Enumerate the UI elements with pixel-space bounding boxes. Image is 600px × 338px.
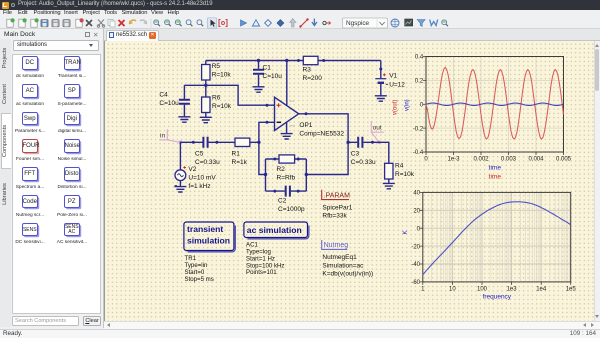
svg-text:0.003: 0.003 xyxy=(501,157,517,163)
svg-text:0.4: 0.4 xyxy=(415,55,424,61)
svg-text:100: 100 xyxy=(477,287,488,293)
wire op-amp VCC drop xyxy=(286,61,288,106)
svg-text:vcc: vcc xyxy=(290,99,295,103)
svg-text:NutmegEq1: NutmegEq1 xyxy=(322,254,357,261)
capacitor C3 xyxy=(348,137,376,166)
wire C5 to R1 xyxy=(217,141,235,143)
svg-text:40: 40 xyxy=(413,191,420,197)
svg-text:V1: V1 xyxy=(389,73,397,80)
vertical scrollbar xyxy=(594,41,600,321)
svg-text:1e3: 1e3 xyxy=(507,287,518,293)
svg-text:-20: -20 xyxy=(411,244,420,250)
nutmeg equation NutmegEq1 xyxy=(322,240,373,278)
svg-text:R=Rfb: R=Rfb xyxy=(277,175,296,182)
resistor R5 xyxy=(202,61,232,86)
svg-text:C=10u: C=10u xyxy=(159,100,179,107)
ground R6 xyxy=(200,117,212,122)
svg-text:C5: C5 xyxy=(195,151,204,158)
svg-text:R2: R2 xyxy=(277,166,286,173)
ground C4 xyxy=(178,117,190,122)
node label out xyxy=(371,121,384,144)
capacitor C4 xyxy=(159,85,190,117)
svg-text:U=12: U=12 xyxy=(389,81,405,88)
ac simulation AC1 xyxy=(244,222,309,276)
svg-text:OP1: OP1 xyxy=(299,122,312,129)
svg-text:Nutmeg: Nutmeg xyxy=(324,242,349,249)
svg-text:R6: R6 xyxy=(212,95,221,102)
node junction R1 / inverting input xyxy=(257,141,260,144)
wire inverting input net xyxy=(259,121,275,175)
svg-text:10: 10 xyxy=(449,287,456,293)
diagram frequency-response frame xyxy=(420,192,571,285)
svg-text:frequency: frequency xyxy=(483,294,512,301)
wire junction to C4 xyxy=(184,84,205,86)
ground R4 xyxy=(383,183,395,188)
svg-text:20: 20 xyxy=(413,209,420,215)
wire feedback loop frame xyxy=(266,159,307,191)
svg-text:simulation: simulation xyxy=(187,235,230,245)
ground op-amp xyxy=(281,134,293,139)
svg-text:transient: transient xyxy=(187,224,223,234)
resistor R1 xyxy=(232,138,259,166)
resistor R6 xyxy=(202,85,232,117)
wire op-amp output xyxy=(299,112,348,174)
svg-text:R4: R4 xyxy=(395,163,404,170)
svg-text:ac simulation: ac simulation xyxy=(247,225,302,235)
svg-text:R=200: R=200 xyxy=(303,75,323,82)
voltage source V2 xyxy=(175,142,217,190)
svg-text:R=10k: R=10k xyxy=(395,171,415,178)
svg-text:vee: vee xyxy=(290,123,295,127)
title bar xyxy=(0,0,600,10)
svg-text:v(out): v(out) xyxy=(393,100,399,115)
svg-text:-0.2: -0.2 xyxy=(413,126,424,132)
diagram time-domain grid xyxy=(426,57,564,153)
ground V2 xyxy=(174,187,186,192)
svg-text:Comp=NE5532: Comp=NE5532 xyxy=(299,131,344,138)
resistor R4 xyxy=(385,163,415,184)
svg-text:out: out xyxy=(373,125,382,132)
svg-text:C=10u: C=10u xyxy=(263,73,283,80)
capacitor C1 xyxy=(253,61,282,87)
svg-text:C=1000p: C=1000p xyxy=(278,206,305,213)
wire in node to C5 xyxy=(180,141,194,144)
svg-text:C=0.33u: C=0.33u xyxy=(351,159,376,166)
curve v(in) blue xyxy=(426,103,564,105)
toolbar xyxy=(0,18,600,30)
svg-text:in: in xyxy=(160,133,165,140)
wire top supply rail xyxy=(206,60,381,62)
svg-text:0.2: 0.2 xyxy=(415,79,424,85)
components panel xyxy=(12,54,101,314)
svg-text:C=0.33u: C=0.33u xyxy=(195,159,220,166)
node junction R5/R6/C4 xyxy=(204,84,207,87)
svg-text:Ngspice: Ngspice xyxy=(346,20,370,27)
svg-text:C1: C1 xyxy=(263,65,272,72)
menu bar xyxy=(0,10,600,18)
curve K gain xyxy=(423,202,571,275)
svg-text:.PARAM: .PARAM xyxy=(324,192,350,199)
svg-text:0: 0 xyxy=(420,102,424,108)
svg-text:0.004: 0.004 xyxy=(528,157,544,163)
svg-text:U=10 mV: U=10 mV xyxy=(188,175,216,182)
wire op-amp VEE to ground xyxy=(286,122,288,133)
svg-text:R=10k: R=10k xyxy=(212,103,232,110)
svg-text:1e5: 1e5 xyxy=(566,287,577,293)
svg-text:Rfb=33k: Rfb=33k xyxy=(322,213,347,220)
svg-text:time: time xyxy=(489,174,502,181)
svg-text:C3: C3 xyxy=(351,151,360,158)
svg-text:v(in): v(in) xyxy=(405,99,411,111)
transient simulation TR1 xyxy=(184,222,235,283)
node junction op-amp supply tap xyxy=(285,59,288,62)
resistor R2 xyxy=(273,155,299,182)
svg-text:R=10k: R=10k xyxy=(212,71,232,78)
svg-text:C2: C2 xyxy=(278,198,287,205)
svg-text:0: 0 xyxy=(417,226,421,232)
capacitor C5 xyxy=(193,137,220,166)
svg-text:R5: R5 xyxy=(212,63,221,70)
document tab bar xyxy=(104,29,600,41)
svg-text:K=db(v(out)/v(in)): K=db(v(out)/v(in)) xyxy=(322,271,373,278)
svg-text:Points=101: Points=101 xyxy=(246,269,277,276)
node junction C1 top xyxy=(257,59,260,62)
resistor R3 xyxy=(297,56,325,82)
svg-text:R1: R1 xyxy=(232,151,241,158)
diagram frequency-response grid xyxy=(423,192,571,282)
horizontal scrollbar xyxy=(104,321,600,329)
svg-text:C4: C4 xyxy=(159,92,168,99)
svg-text:-0.4: -0.4 xyxy=(413,150,424,156)
node junction C3 tap xyxy=(346,141,349,144)
svg-text:Stop=5 ms: Stop=5 ms xyxy=(185,276,214,283)
node label in xyxy=(159,129,182,144)
wire junction to op-amp noninverting input xyxy=(206,85,275,106)
spice .PARAM SpicePar1 xyxy=(322,190,353,220)
svg-text:1: 1 xyxy=(421,287,425,293)
svg-text:K: K xyxy=(403,230,409,234)
node junction feedback left xyxy=(264,173,267,176)
diagram time-domain frame xyxy=(423,57,564,156)
schematic canvas xyxy=(104,41,594,321)
op-amp OP1 xyxy=(275,97,345,138)
svg-text:0.005: 0.005 xyxy=(556,157,572,163)
node junction feedback right xyxy=(305,173,308,176)
svg-text:Simulation=ac: Simulation=ac xyxy=(322,262,364,269)
svg-text:time: time xyxy=(489,164,502,171)
curve v(out) red xyxy=(426,67,564,139)
capacitor C2 xyxy=(273,186,305,213)
svg-text:-60: -60 xyxy=(411,280,420,286)
svg-text:f=1 kHz: f=1 kHz xyxy=(188,183,210,190)
ground V1 xyxy=(375,96,387,101)
wire out to R4 xyxy=(373,142,389,163)
axis labels time-domain xyxy=(393,55,572,181)
svg-text:R=1k: R=1k xyxy=(232,159,248,166)
svg-text:1e4: 1e4 xyxy=(536,287,547,293)
left dock xyxy=(0,29,104,328)
svg-text:0.002: 0.002 xyxy=(473,157,489,163)
status bar xyxy=(0,329,600,338)
svg-text:V2: V2 xyxy=(188,166,196,173)
svg-text:1e-3: 1e-3 xyxy=(447,157,460,163)
svg-text:SpicePar1: SpicePar1 xyxy=(322,204,352,211)
svg-text:0: 0 xyxy=(424,157,428,163)
axis labels frequency-response xyxy=(403,191,576,301)
svg-text:-40: -40 xyxy=(411,262,420,268)
ground C1 xyxy=(253,87,265,92)
voltage source V1 xyxy=(375,61,405,96)
svg-text:R3: R3 xyxy=(303,67,312,74)
